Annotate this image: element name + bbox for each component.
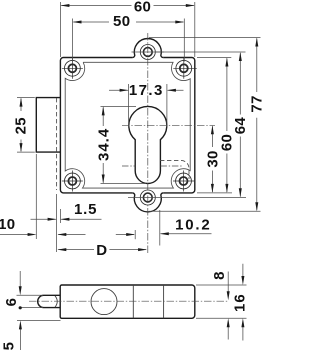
right side extension lines bbox=[149, 38, 261, 212]
plate outline (lock case front plate) bbox=[60, 58, 194, 193]
svg-text:D: D bbox=[96, 242, 107, 259]
svg-text:5: 5 bbox=[1, 342, 18, 350]
plate inner offset line with arcs around corner holes bbox=[65, 62, 190, 188]
dim 60 top: extension lines bbox=[60, 2, 194, 57]
dim 17.3 arrows (outside) bbox=[120, 89, 129, 92]
hidden centerline segment (dash-dot) bbox=[122, 165, 182, 167]
top mounting tab bbox=[132, 38, 163, 57]
dim 10.2 arrow (outside) bbox=[160, 232, 169, 235]
corner hole BR bbox=[173, 171, 194, 192]
dim 5: arrow line bbox=[19, 329, 21, 350]
bottom tab boss circle bbox=[140, 190, 155, 205]
dim 1.5 arrow (outside right) bbox=[60, 218, 69, 221]
pin inner arc bbox=[55, 296, 57, 307]
svg-text:34.4: 34.4 bbox=[96, 128, 113, 161]
dim D-5.1 arrows bbox=[57, 233, 66, 236]
dim 30 right: dimension line bbox=[211, 126, 213, 192]
dim 1.5: dimension line tail bbox=[61, 218, 101, 220]
dim 10.2: extension line (slot right edge) bbox=[159, 210, 161, 246]
side view case body bbox=[60, 285, 195, 318]
svg-text:64: 64 bbox=[232, 117, 249, 135]
dim 10.2: dimension line tail bbox=[161, 233, 212, 235]
dim 60 arrows bbox=[60, 4, 69, 7]
dim 10: extension line (bolt face) bbox=[35, 154, 37, 239]
svg-text:30: 30 bbox=[205, 150, 222, 167]
dim 16 arrow down bbox=[241, 276, 244, 285]
side view bolt pin bbox=[38, 295, 61, 307]
corner hole TL bbox=[62, 58, 83, 79]
dim 34.4 arrows bbox=[102, 106, 105, 115]
svg-text:77: 77 bbox=[249, 95, 264, 112]
right extension lines side view bbox=[196, 285, 247, 318]
dim 64 right: dimension line bbox=[239, 53, 241, 197]
dim 60 right: dimension line bbox=[226, 58, 228, 192]
svg-text:60: 60 bbox=[219, 134, 236, 151]
bolt protruding left bbox=[36, 98, 60, 153]
dim 17.3: dimension line tails bbox=[109, 89, 184, 91]
svg-text:17.3: 17.3 bbox=[129, 82, 164, 99]
top tab boss circle bbox=[140, 45, 155, 60]
svg-text:60: 60 bbox=[134, 0, 151, 15]
dim 6 reference dot bbox=[19, 306, 22, 309]
dim 77 arrows bbox=[255, 38, 258, 47]
dim D arrows bbox=[57, 248, 66, 251]
hidden contour bottom right (dashed) bbox=[160, 160, 189, 179]
side view cylinder circle bbox=[91, 289, 117, 315]
dim 8 arrow down bbox=[227, 291, 230, 300]
svg-text:10: 10 bbox=[0, 216, 15, 233]
dim 1.5: extension lines bbox=[57, 194, 61, 252]
dim 50 top: dimension line bbox=[73, 21, 183, 23]
dim 8: dimension line bbox=[227, 272, 229, 293]
dim 6: extension lines bbox=[17, 295, 44, 307]
corner hole BL bbox=[62, 171, 83, 192]
dim 5 arrow up bbox=[19, 320, 22, 329]
vertical center axis (dash-dot) bbox=[147, 33, 149, 253]
side view internal lines bbox=[133, 285, 163, 318]
dim D: dimension line bbox=[58, 249, 146, 251]
dim 8 arrow up bbox=[227, 318, 230, 327]
dim 5: extension line bbox=[17, 319, 61, 321]
dim 50 arrows bbox=[73, 21, 82, 24]
dim 25: extension lines bbox=[17, 98, 35, 153]
dim 34.4: dimension line bbox=[102, 107, 104, 183]
bottom tab crosshair bbox=[128, 197, 246, 199]
arrowheads top view bbox=[20, 4, 259, 251]
dim 10: dimension line bbox=[31, 218, 56, 220]
dim 60 right arrows bbox=[225, 58, 228, 67]
top tab crosshair bbox=[132, 51, 165, 53]
svg-text:50: 50 bbox=[113, 13, 130, 30]
dim 16: dimension lines bbox=[242, 264, 244, 341]
dim 60 top: dimension line bbox=[61, 5, 194, 7]
dim 6 arrow down bbox=[19, 286, 22, 295]
dim 6: arrow line bbox=[19, 271, 21, 287]
svg-text:25: 25 bbox=[13, 117, 30, 134]
horizontal centerline through keyhole (dash-dot) bbox=[122, 124, 215, 126]
svg-text:16: 16 bbox=[232, 293, 249, 312]
euro profile cylinder keyhole bbox=[129, 106, 167, 183]
svg-text:1.5: 1.5 bbox=[74, 201, 97, 218]
dim 17.3: extension lines bbox=[129, 84, 167, 127]
top tab hole bbox=[143, 48, 152, 57]
bottom mounting tab bbox=[132, 193, 163, 212]
dim 30 arrows bbox=[211, 125, 214, 134]
corner hole TR bbox=[173, 58, 197, 79]
dim 25: dimension line bbox=[20, 99, 22, 152]
dim D-5.1 row: extension line (slot left edge) bbox=[134, 230, 136, 239]
dim 64 arrows bbox=[239, 52, 242, 61]
dim 8: bottom arrow line bbox=[227, 327, 229, 340]
svg-text:10.2: 10.2 bbox=[175, 216, 211, 233]
dim 77 right: dimension line bbox=[256, 38, 258, 210]
svg-text:8: 8 bbox=[211, 271, 228, 280]
dim 16 arrow up bbox=[241, 318, 244, 327]
dim D-5.1 row: dimension line bbox=[0, 234, 134, 236]
dim 10 arrow (tip at case line) bbox=[48, 218, 57, 221]
dim 50 top: extension lines bbox=[73, 19, 185, 62]
svg-text:6: 6 bbox=[3, 298, 20, 307]
dim 25 arrows bbox=[20, 98, 23, 107]
hidden case face line (dashed) bbox=[56, 98, 58, 190]
side view centerline bbox=[29, 300, 228, 302]
dim 34.4: extension lines bbox=[101, 106, 147, 183]
bottom tab hole bbox=[143, 193, 152, 202]
